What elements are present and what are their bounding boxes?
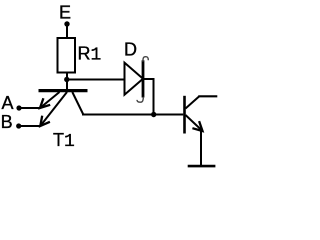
wire Q2 emitter to ground bbox=[200, 130, 202, 166]
transistor T1 emitter 1 line bbox=[40, 92, 60, 108]
diode cathode bottom curl bbox=[137, 97, 143, 102]
junction dot at T2 base net bbox=[151, 112, 156, 117]
wire corner down to base net bbox=[153, 78, 155, 115]
svg-text:R1: R1 bbox=[78, 44, 102, 66]
wire T1 collector to T2 base bbox=[82, 114, 183, 116]
resistor R1 bbox=[58, 38, 76, 73]
diode D cathode bar bbox=[142, 60, 145, 97]
diode cathode top curl bbox=[143, 57, 148, 62]
transistor T1 emitter 2 arrowhead bbox=[40, 116, 50, 126]
svg-text:D: D bbox=[124, 40, 137, 60]
transistor T1 emitter 2 line bbox=[40, 92, 67, 126]
svg-text:T1: T1 bbox=[53, 130, 75, 152]
terminal dot A bbox=[16, 105, 21, 110]
svg-text:A: A bbox=[2, 93, 14, 113]
junction dot below R1 bbox=[64, 77, 69, 82]
ground bar bbox=[188, 165, 216, 168]
transistor Q2 emitter arrowhead bbox=[192, 121, 202, 131]
wire B to emitter 2 bbox=[19, 125, 41, 127]
transistor Q2 collector diagonal bbox=[186, 96, 200, 108]
transistor T1 collector diagonal bbox=[72, 92, 83, 115]
terminal dot E bbox=[64, 21, 69, 26]
transistor T1 emitter 1 arrowhead bbox=[40, 98, 50, 108]
wire A to emitter 1 bbox=[19, 107, 40, 109]
wire Q2 collector horizontal bbox=[198, 95, 217, 97]
transistor T1 base bar bbox=[39, 89, 88, 92]
wire E terminal to resistor bbox=[66, 24, 68, 38]
svg-text:B: B bbox=[1, 112, 13, 132]
wire resistor to T1 base bar bbox=[66, 73, 68, 91]
svg-text:E: E bbox=[59, 3, 71, 23]
wire junction to diode anode bbox=[67, 79, 125, 81]
transistor Q2 base bar bbox=[183, 96, 186, 134]
wire diode cathode to corner bbox=[144, 78, 154, 80]
terminal dot B bbox=[16, 123, 21, 128]
diode D triangle bbox=[125, 63, 144, 95]
transistor Q2 emitter line bbox=[186, 115, 203, 131]
